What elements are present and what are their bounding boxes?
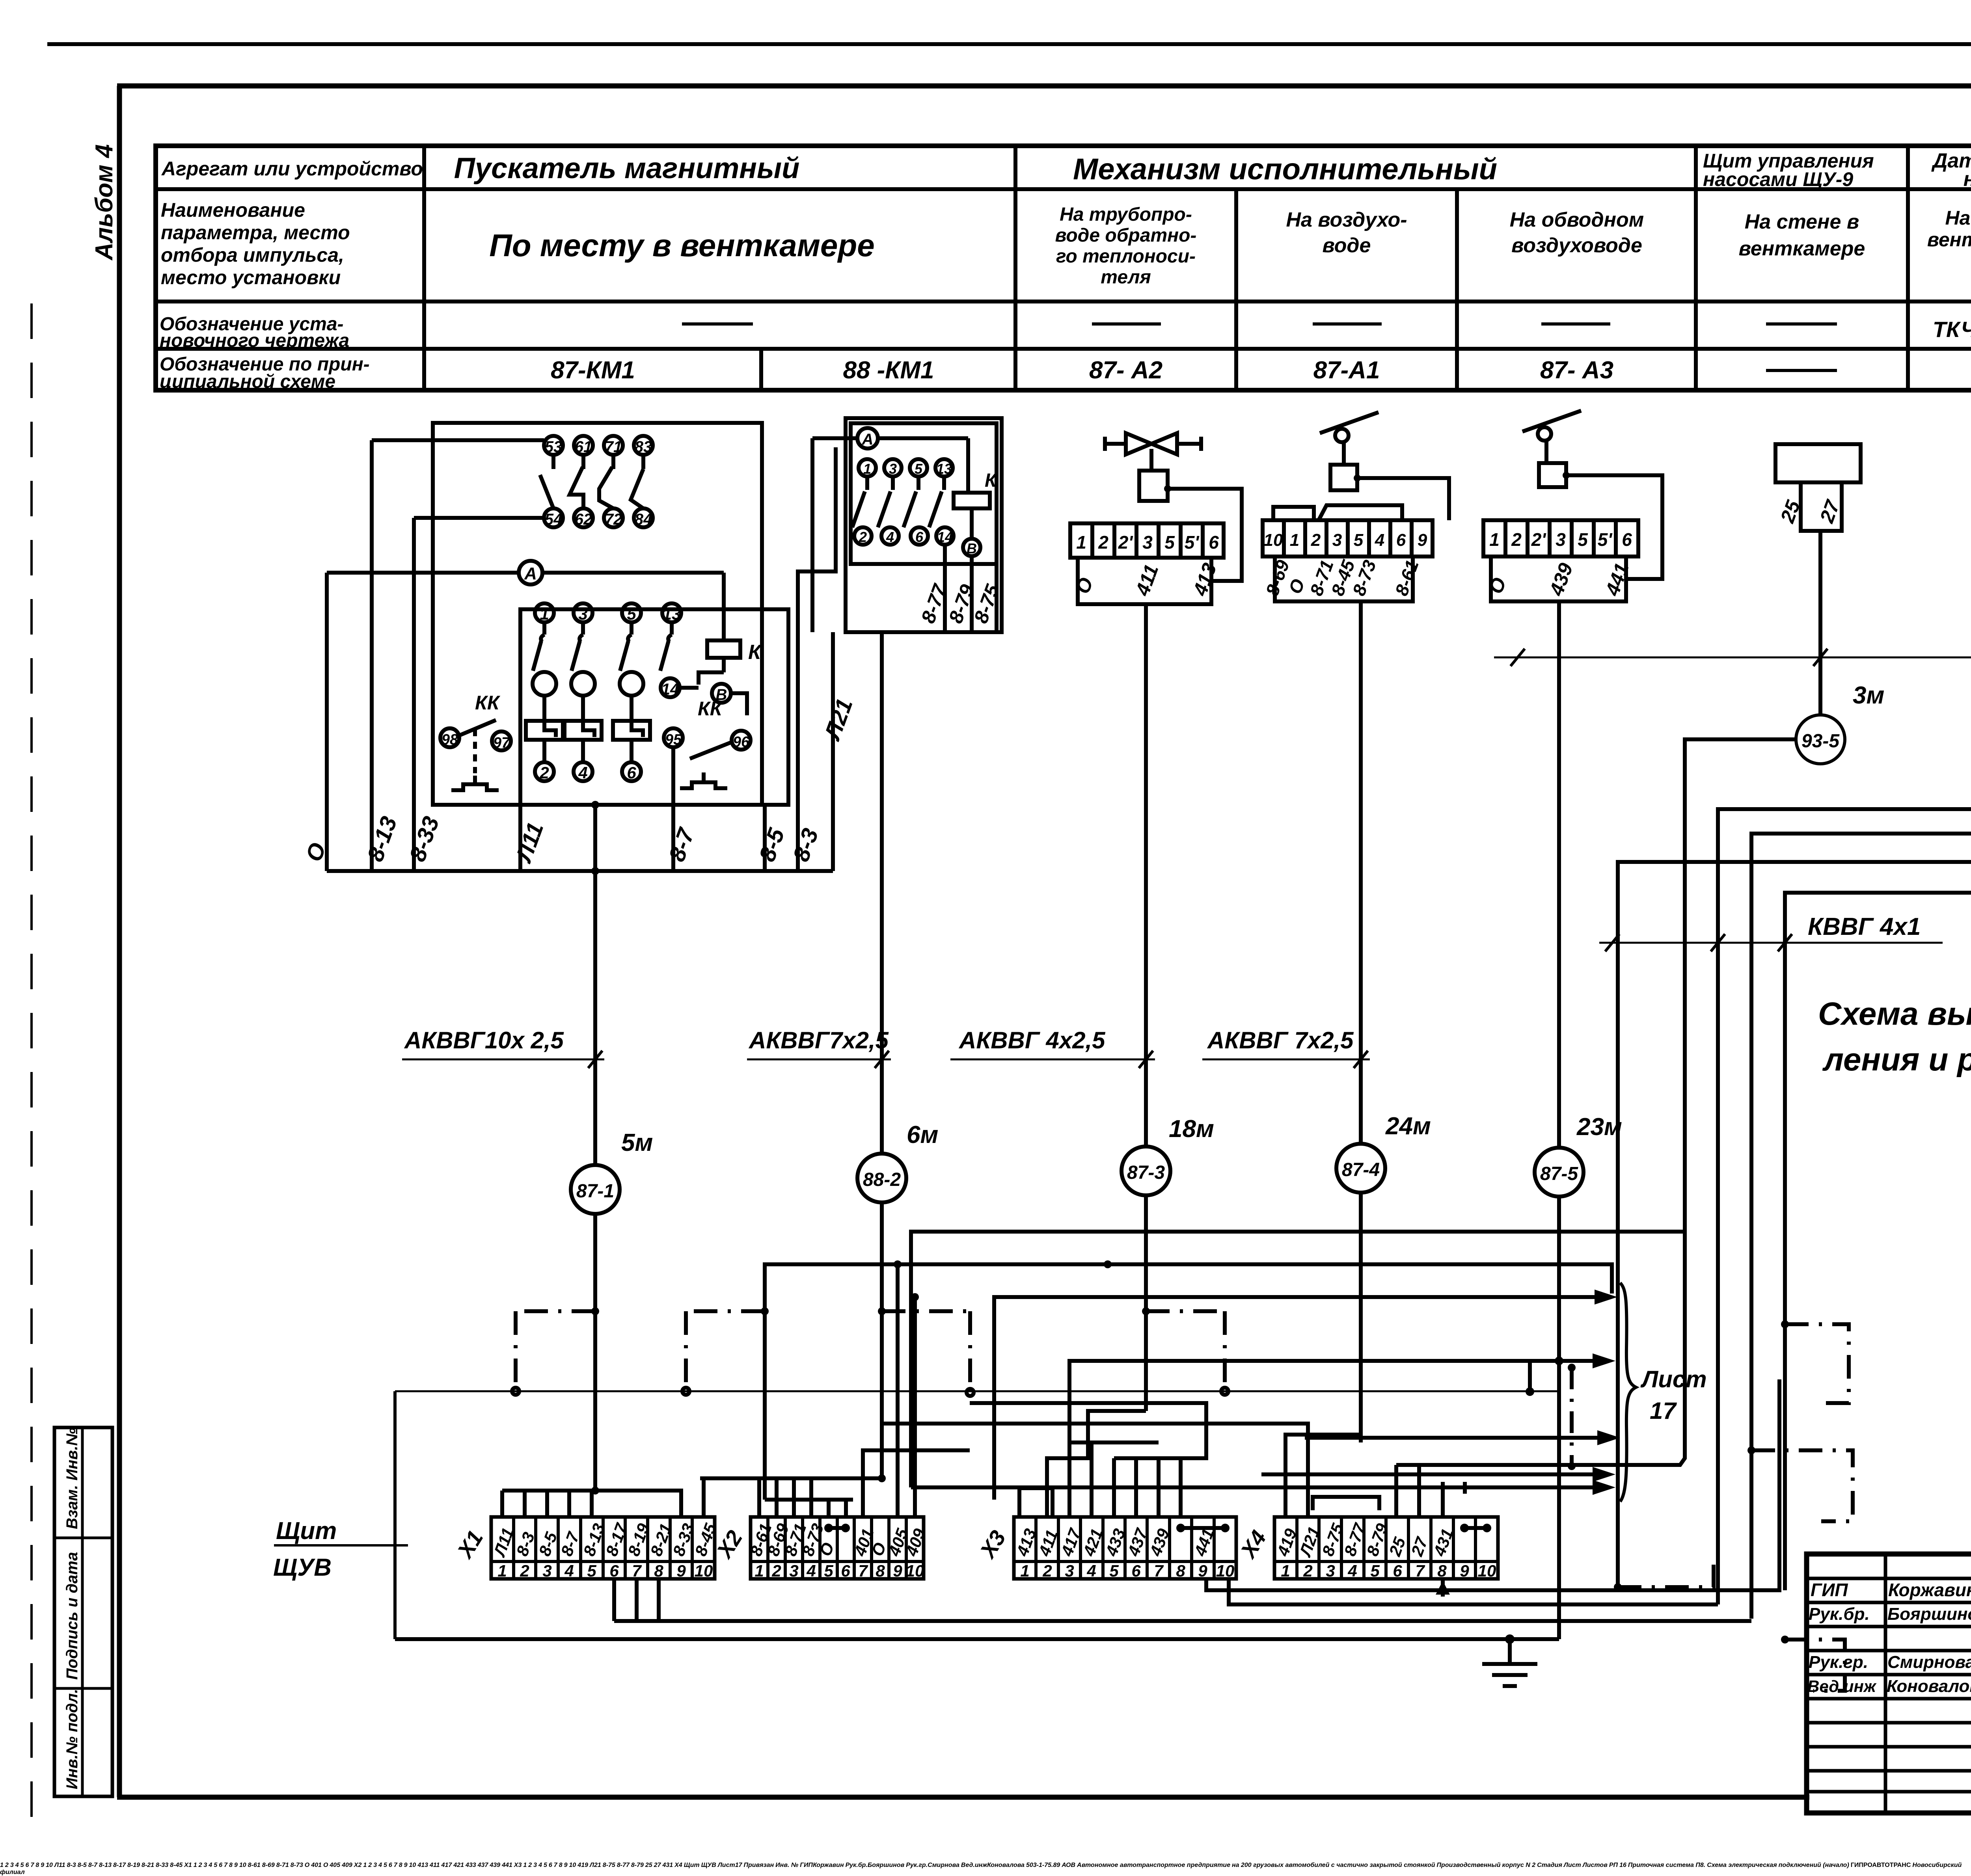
terminals 2 4 6 14 of 88-KM1: [854, 527, 954, 545]
wire L11: [518, 805, 522, 871]
wire L21: [831, 632, 835, 871]
svg-text:6: 6: [841, 1561, 850, 1580]
svg-text:10: 10: [1216, 1561, 1235, 1580]
wire 87-7 to mesh: [1751, 775, 1971, 1619]
svg-text:7: 7: [1154, 1561, 1164, 1580]
svg-text:14: 14: [937, 529, 953, 545]
wire bus h1: [911, 1232, 1685, 1478]
wire to sheet17 a1: [717, 1862, 718, 1869]
shield wire right 1: [743, 1862, 744, 1869]
svg-text:88-2: 88-2: [863, 1169, 901, 1190]
svg-text:62: 62: [575, 511, 592, 528]
shield wire right 1: [1781, 1320, 1849, 1403]
svg-text:К: К: [748, 641, 762, 664]
bus bar above X2: [717, 1862, 718, 1869]
wire to sheet17 a3: [717, 1862, 718, 1869]
svg-text:воздуховоде: воздуховоде: [1511, 234, 1642, 257]
strip A1 lower row: [1262, 556, 1423, 601]
svg-text:параметра, место: параметра, место: [161, 221, 350, 244]
bottom rail: [327, 869, 833, 873]
wire 441 run: [717, 1862, 718, 1869]
inventory box Privyazan: [744, 1862, 800, 1869]
terminal strip A1: [1263, 520, 1433, 556]
svg-text:13: 13: [663, 605, 681, 623]
svg-text:6: 6: [1396, 530, 1406, 550]
svg-text:Л11: Л11: [510, 819, 549, 866]
svg-text:венткамере: венткамере: [1739, 237, 1865, 260]
jumper covers A1: [1273, 505, 1402, 520]
svg-text:8-3: 8-3: [788, 825, 823, 865]
svg-text:А: А: [524, 564, 537, 583]
stubs above X4: [1396, 1465, 1465, 1517]
svg-text:71: 71: [605, 438, 622, 456]
cable label AKVVG7x2.5 second: [1202, 1027, 1370, 1068]
wire to sheet17 a2: [717, 1862, 718, 1869]
wire X2 feeder 409: [717, 1862, 718, 1869]
shield wire 87-5: [717, 1862, 718, 1869]
svg-text:10: 10: [906, 1561, 924, 1580]
svg-text:413: 413: [1189, 560, 1221, 599]
svg-text:А: А: [862, 431, 874, 448]
svg-text:1: 1: [863, 461, 871, 477]
svg-text:7: 7: [858, 1561, 868, 1580]
svg-text:3: 3: [789, 1561, 798, 1580]
svg-text:9: 9: [893, 1561, 902, 1580]
svg-text:87-1: 87-1: [576, 1181, 614, 1202]
album label: [91, 144, 118, 261]
svg-text:53: 53: [545, 438, 563, 456]
X3 bottom run 2: [717, 1862, 718, 1869]
wire to sheet17 a1: [994, 1290, 1617, 1500]
node A bus: [327, 561, 724, 640]
svg-text:3: 3: [1326, 1561, 1335, 1580]
svg-text:88 -КМ1: 88 -КМ1: [843, 357, 934, 384]
damper actuator box: [1330, 465, 1361, 490]
title block: [0, 1862, 1962, 1876]
valve body: [1105, 433, 1201, 454]
svg-text:6: 6: [627, 763, 636, 782]
terminals 1 3 5 13 of 88-KM1: [859, 459, 953, 477]
shield wire right 4: [743, 1862, 744, 1869]
bus line 2: [717, 1862, 718, 1869]
svg-text:2: 2: [1042, 1561, 1052, 1580]
svg-text:2: 2: [771, 1561, 781, 1580]
wire X2 feeder 405: [894, 1260, 902, 1517]
wire O left: [325, 573, 329, 871]
push button left: [451, 776, 499, 790]
shield wire 87-1: [512, 1307, 599, 1395]
svg-text:Пускатель магнитный: Пускатель магнитный: [454, 152, 800, 184]
svg-text:Лист: Лист: [1640, 1366, 1707, 1392]
svg-text:По месту в венткамере: По месту в венткамере: [489, 228, 875, 263]
svg-text:8-61: 8-61: [1391, 557, 1423, 598]
svg-text:6: 6: [915, 529, 924, 545]
svg-text:3м: 3м: [1853, 682, 1884, 709]
wire 87-3 to X3: [1047, 1411, 1146, 1517]
svg-text:5: 5: [1109, 1561, 1119, 1580]
svg-text:95: 95: [665, 731, 682, 748]
svg-text:9: 9: [676, 1561, 686, 1580]
svg-text:9: 9: [1460, 1561, 1469, 1580]
cable line AKVVG-4x2.5: [1494, 629, 1971, 666]
panel label Schit SchUV: [273, 1517, 408, 1581]
svg-text:насосами ЩУ-9: насосами ЩУ-9: [1703, 168, 1853, 190]
svg-text:10: 10: [1478, 1561, 1496, 1580]
svg-text:1: 1: [540, 605, 549, 623]
wire bus h2: [717, 1862, 718, 1869]
node A bus 88: [812, 428, 968, 632]
svg-text:87- А3: 87- А3: [1540, 357, 1613, 384]
svg-text:8: 8: [1176, 1561, 1185, 1580]
cable marker 87-4: [1336, 1113, 1431, 1193]
magnetic starter 87-KM1: [301, 423, 836, 875]
strip A2 lower row: [1071, 558, 1221, 604]
shield wire bus1940: [717, 1862, 718, 1869]
svg-text:воде: воде: [1323, 234, 1371, 257]
svg-text:5: 5: [627, 605, 636, 623]
cable marker 88-2: [857, 1121, 938, 1202]
svg-text:4: 4: [886, 529, 894, 545]
wire box to strip A3: [1566, 475, 1662, 579]
main pole terminals 1 3 5 13: [535, 603, 681, 623]
svg-text:5: 5: [587, 1561, 596, 1580]
svg-text:87- А2: 87- А2: [1089, 357, 1162, 384]
svg-text:Смирнова: Смирнова: [1887, 1653, 1971, 1672]
svg-text:Схема выполнена на основании: Схема выполнена на основании схем управ-: [1818, 996, 1971, 1032]
svg-text:В: В: [967, 540, 977, 556]
wire 8-33: [412, 518, 416, 871]
stubs above X3: [1019, 1442, 1181, 1517]
svg-text:Взам. Инв.№: Взам. Инв.№: [63, 1427, 81, 1529]
cable 87-5 down: [1557, 601, 1561, 1639]
svg-text:5: 5: [1578, 529, 1588, 550]
svg-text:Рук.гр.: Рук.гр.: [1809, 1653, 1868, 1672]
svg-text:АКВВГ 4х2,5: АКВВГ 4х2,5: [958, 1027, 1106, 1053]
shield wire right 4: [1614, 1561, 1714, 1591]
svg-text:Агрегат или устройство: Агрегат или устройство: [161, 158, 423, 180]
shield wire right 2: [743, 1862, 744, 1869]
cable marker 87-3: [1121, 1115, 1214, 1195]
svg-text:Инв.№ подл.: Инв.№ подл.: [63, 1689, 81, 1789]
svg-text:Х4: Х4: [1235, 1526, 1271, 1563]
strip A3 lower row: [1485, 556, 1633, 601]
svg-text:87-3: 87-3: [1127, 1162, 1165, 1183]
svg-text:2: 2: [1311, 530, 1321, 550]
svg-text:4: 4: [564, 1561, 574, 1580]
pole bottom terminals 2 4 6: [535, 740, 641, 782]
shield wire 87-1: [717, 1862, 718, 1869]
cable SCHU-9 down: [1818, 531, 1822, 715]
svg-text:6: 6: [1131, 1561, 1141, 1580]
svg-text:Бояршинов: Бояршинов: [1887, 1604, 1971, 1624]
wire X2 feeder 409: [911, 1293, 919, 1517]
X4 bottom stub: [717, 1862, 718, 1869]
wire 8-3 riser: [798, 447, 836, 871]
actuator 87-A1 damper assembly: [1262, 412, 1449, 601]
contacts of 88-KM1: [852, 476, 944, 527]
wire labels: [301, 813, 823, 866]
svg-text:5м: 5м: [621, 1129, 653, 1156]
svg-text:3: 3: [1332, 530, 1342, 550]
wire 87-6 to mesh: [1718, 772, 1971, 1604]
terminal block Х4: [1235, 1517, 1498, 1580]
svg-text:4: 4: [1086, 1561, 1096, 1580]
control cabinet SCHU-9: [1775, 444, 1861, 715]
svg-text:8: 8: [1437, 1561, 1447, 1580]
damper lever A3: [1522, 411, 1581, 463]
svg-text:5: 5: [824, 1561, 833, 1580]
svg-text:54: 54: [545, 511, 563, 528]
svg-text:3: 3: [1065, 1561, 1074, 1580]
svg-text:1: 1: [1076, 532, 1086, 553]
svg-text:О: О: [1485, 575, 1511, 597]
svg-text:Коновалова: Коновалова: [1887, 1677, 1971, 1696]
svg-text:87-А1: 87-А1: [1313, 357, 1380, 384]
ground: [1482, 1634, 1537, 1686]
magnetic starter 88-KM1: [812, 418, 1004, 871]
svg-text:2: 2: [1303, 1561, 1312, 1580]
svg-text:1: 1: [1290, 530, 1299, 550]
svg-text:АКВВГ10х 2,5: АКВВГ10х 2,5: [404, 1027, 564, 1053]
svg-text:КК: КК: [475, 692, 501, 714]
main pole contacts and coils: [533, 622, 643, 721]
bus bar above X1: [717, 1862, 718, 1869]
svg-text:Рук.бр.: Рук.бр.: [1809, 1604, 1870, 1624]
wire bus h1: [717, 1862, 718, 1869]
aux contact blades: [540, 455, 643, 508]
svg-text:5': 5': [1598, 529, 1613, 550]
svg-text:8-7: 8-7: [664, 824, 700, 865]
svg-text:4: 4: [578, 763, 587, 782]
wire to sheet17 a2: [1069, 1353, 1615, 1442]
bus line 1: [717, 1862, 718, 1869]
cable line KVVG 4x1: [1599, 913, 1943, 951]
title block: [1807, 1554, 1971, 1813]
svg-text:место установки: место установки: [161, 266, 341, 288]
wire 8-33 to 54: [414, 516, 544, 520]
svg-text:ГИП: ГИП: [1811, 1580, 1848, 1600]
terminal block Х2: [711, 1517, 929, 1580]
svg-text:87-5: 87-5: [1540, 1163, 1578, 1184]
cable marker 87-5: [1535, 1113, 1622, 1197]
svg-text:4: 4: [1375, 530, 1384, 550]
wire 87-9 to mesh: [1785, 775, 1971, 1590]
svg-text:КК: КК: [698, 698, 723, 720]
wire box to strip: [1168, 489, 1242, 581]
note sheet 17: [1620, 1283, 1707, 1502]
svg-text:6: 6: [609, 1561, 619, 1580]
svg-text:О: О: [1071, 575, 1097, 597]
cable 87-4 down: [1359, 601, 1363, 1442]
stubs above X4: [717, 1862, 718, 1869]
wire 8-5: [763, 805, 767, 871]
svg-text:98: 98: [442, 731, 458, 748]
svg-text:Альбом 4: Альбом 4: [91, 144, 118, 261]
svg-text:О: О: [1285, 576, 1309, 597]
svg-text:4: 4: [806, 1561, 816, 1580]
wire main cable down: [591, 801, 599, 875]
svg-text:5: 5: [1370, 1561, 1380, 1580]
svg-text:2': 2': [1531, 529, 1547, 550]
svg-text:2': 2': [1118, 532, 1134, 553]
svg-text:3: 3: [889, 461, 897, 477]
bus bar above X2: [700, 1474, 886, 1517]
cable label AKVVG4x2.5: [950, 1027, 1155, 1068]
svg-text:Подпись и дата: Подпись и дата: [63, 1552, 81, 1680]
header table text: [160, 149, 1971, 392]
X4 bottom stub: [1436, 1579, 1450, 1595]
svg-text:8-13: 8-13: [362, 813, 402, 865]
shield wire 87-5: [1568, 1364, 1576, 1470]
svg-text:6м: 6м: [907, 1121, 938, 1148]
wire to sheet17 a5: [911, 1480, 1615, 1495]
terminal B of 88-KM1: [963, 539, 980, 556]
svg-text:Х3: Х3: [974, 1526, 1010, 1563]
svg-text:84: 84: [635, 511, 652, 528]
svg-text:9: 9: [1198, 1561, 1207, 1580]
svg-text:3: 3: [578, 605, 587, 623]
svg-text:25: 25: [1385, 1535, 1409, 1559]
wire 441 run: [970, 1403, 1206, 1517]
svg-text:На трубопро-: На трубопро-: [1060, 204, 1192, 225]
svg-text:2: 2: [859, 529, 867, 545]
cable label AKVVG7x2.5: [747, 1027, 891, 1068]
starter 87-KM1 main contact box: [520, 609, 788, 805]
terminal block Х1: [452, 1517, 720, 1580]
cabinet box: [1775, 444, 1861, 531]
svg-text:2: 2: [1098, 532, 1108, 553]
svg-text:1: 1: [754, 1561, 764, 1580]
svg-text:7: 7: [632, 1561, 642, 1580]
terminal block Х3: [363, 1862, 523, 1869]
header table dashes: [682, 324, 1971, 370]
wire to sheet17 a4: [1261, 1467, 1615, 1482]
terminal block Х4: [523, 1862, 684, 1869]
svg-text:8-33: 8-33: [404, 813, 444, 865]
wire to sheet17 a4: [717, 1862, 718, 1869]
bus bar above X2 second: [765, 1500, 853, 1517]
svg-text:97: 97: [493, 735, 510, 751]
svg-text:Вед.инж: Вед.инж: [1807, 1677, 1877, 1695]
X3 bottom run 1: [717, 1862, 718, 1869]
KK contact right: [664, 698, 751, 805]
wire 93-5 to mesh: [1396, 739, 1796, 1465]
coil K of 88-KM1: [954, 438, 998, 538]
svg-text:23м: 23м: [1576, 1113, 1622, 1141]
svg-text:вентсистемы: вентсистемы: [1927, 229, 1971, 251]
svg-text:13: 13: [936, 461, 952, 477]
lower wiring mesh: [718, 1862, 744, 1869]
wire O bus: [395, 1391, 1559, 1639]
svg-text:18м: 18м: [1169, 1115, 1214, 1143]
junction dots near 87-5: [717, 1862, 718, 1869]
note sheet 17: [718, 1862, 742, 1869]
ground: [717, 1862, 718, 1869]
terminal block Х3: [974, 1517, 1236, 1580]
left margin boxes: [54, 1427, 112, 1796]
svg-text:4: 4: [1347, 1561, 1357, 1580]
svg-text:Наименование: Наименование: [161, 199, 305, 221]
svg-text:5: 5: [1354, 530, 1364, 550]
svg-text:3: 3: [1556, 529, 1566, 550]
bus line 2: [395, 1637, 1559, 1641]
shield wire 88-2: [717, 1862, 718, 1869]
svg-text:2: 2: [1511, 529, 1522, 550]
cable 88-2 down: [880, 871, 884, 1478]
svg-text:72: 72: [605, 511, 622, 528]
push button right: [680, 772, 727, 788]
cable 88 down: [880, 632, 884, 871]
svg-text:439: 439: [1545, 560, 1577, 599]
X3 bottom run 2: [1229, 1579, 1718, 1604]
svg-text:отбора импульса,: отбора импульса,: [161, 244, 344, 266]
wire riser 2311: [909, 1232, 913, 1487]
pole 13-14 and relay contact: [660, 622, 747, 715]
svg-text:96: 96: [733, 734, 750, 750]
svg-text:8: 8: [654, 1561, 663, 1580]
svg-text:1: 1: [1020, 1561, 1029, 1580]
svg-text:6: 6: [1393, 1561, 1402, 1580]
actuator 87-A2 valve assembly: [1070, 433, 1242, 604]
svg-text:6: 6: [1209, 532, 1219, 553]
svg-text:На воздухо-: На воздухо-: [1286, 208, 1407, 231]
wire 87-8 to mesh: [1618, 772, 1971, 1590]
svg-text:1: 1: [497, 1561, 507, 1580]
header table grid: [156, 146, 1971, 390]
wire X2 feeder 401: [863, 1450, 970, 1517]
shield wire 87-3: [717, 1862, 718, 1869]
svg-text:3: 3: [542, 1561, 551, 1580]
svg-text:5': 5': [1185, 532, 1200, 553]
svg-text:83: 83: [635, 438, 652, 456]
damper lever: [1320, 412, 1379, 465]
wire L21 run: [717, 1862, 718, 1869]
shield wire 87-3: [1142, 1307, 1228, 1395]
wire 87-4 to X4: [1285, 1435, 1361, 1517]
svg-text:411: 411: [1131, 562, 1162, 599]
svg-text:61: 61: [575, 438, 592, 456]
svg-text:На обводном: На обводном: [1510, 208, 1644, 231]
svg-text:2: 2: [539, 763, 549, 782]
svg-text:10: 10: [1264, 530, 1283, 550]
svg-text:6: 6: [1622, 529, 1632, 550]
wire to sheet17 a3: [1305, 1430, 1620, 1445]
damper actuator box A3: [1539, 463, 1570, 487]
svg-text:17: 17: [1650, 1398, 1677, 1424]
panel label Schit SchUV: [684, 1862, 718, 1869]
jumper cover above X4: [717, 1862, 718, 1869]
starter 87-KM1 outer box: [433, 423, 762, 805]
svg-text:напора: напора: [1964, 168, 1971, 191]
valve actuator box: [1139, 449, 1171, 501]
svg-text:К: К: [985, 470, 998, 491]
shield wire right 3: [1781, 1636, 1845, 1691]
wire X2 feeder 405: [717, 1862, 718, 1869]
wires to rail 88: [945, 545, 997, 632]
bus bar above X2 second: [717, 1862, 718, 1869]
svg-text:ТКЧ-3511-В1: ТКЧ-3511-В1: [1933, 317, 1971, 342]
svg-text:10: 10: [695, 1561, 713, 1580]
svg-text:На стене у: На стене у: [1945, 207, 1971, 229]
svg-text:9: 9: [1418, 530, 1427, 550]
svg-text:7: 7: [1415, 1561, 1425, 1580]
lower wiring mesh: [395, 1232, 1853, 1691]
wire box to strip A1: [1357, 478, 1449, 520]
labels 88: [819, 581, 1004, 744]
wire 8-13 to 53: [372, 438, 544, 442]
svg-text:87-КМ1: 87-КМ1: [551, 357, 635, 384]
wire O bus: [717, 1862, 718, 1869]
